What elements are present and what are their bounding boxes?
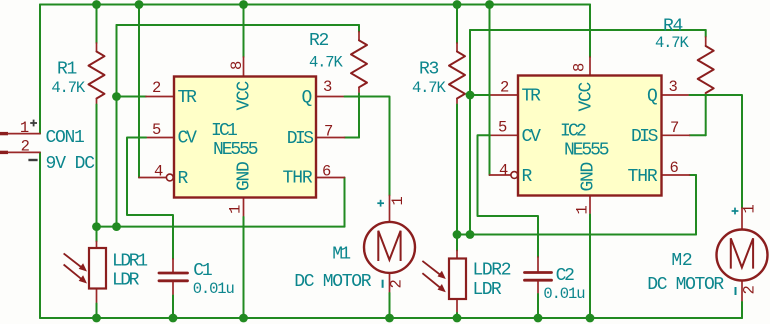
svg-text:2: 2 bbox=[387, 279, 405, 288]
pin 6 THR lead IC2 bbox=[662, 174, 690, 176]
junction dot TR node IC2 bbox=[466, 91, 475, 100]
IC1 NE555 body bbox=[174, 77, 316, 198]
svg-text:LDR: LDR bbox=[473, 280, 502, 300]
pin 8 VCC lead IC2 bbox=[589, 57, 591, 76]
IC2 NE555 body bbox=[518, 76, 662, 196]
wire: GND pin to bottom rail bbox=[243, 217, 245, 318]
resistor R4 bbox=[705, 30, 707, 37]
pin 1 GND lead IC1 bbox=[243, 198, 245, 218]
junction dots top rail bbox=[92, 0, 594, 322]
svg-text:4.7K: 4.7K bbox=[412, 79, 446, 97]
LDR2 top lead wires bbox=[456, 235, 458, 251]
svg-text:1: 1 bbox=[227, 205, 245, 214]
wire: VCC pin8 IC2 to top rail bbox=[589, 5, 591, 58]
svg-text:M1: M1 bbox=[332, 245, 350, 265]
svg-text:6: 6 bbox=[322, 162, 331, 180]
junction dots sense node 2 bbox=[453, 230, 462, 239]
wire: R2 bottom to DIS bbox=[358, 94, 360, 138]
svg-text:1: 1 bbox=[573, 205, 591, 214]
LDR1 top lead wires bbox=[96, 227, 98, 242]
LDR1 bottom lead wires bbox=[96, 289, 98, 304]
wire: line2 TR node to R2 top bbox=[117, 24, 360, 26]
pin 5 CV lead IC1 bbox=[146, 137, 174, 139]
svg-text:7: 7 bbox=[670, 119, 679, 137]
wire: THR2 stub bbox=[690, 174, 697, 176]
connector CON1 pin 2 lead bbox=[8, 151, 40, 153]
wire: DIS to R2 bbox=[345, 137, 360, 139]
pin 7 DIS lead IC2 bbox=[662, 134, 690, 136]
LDR1 body bbox=[89, 248, 106, 289]
svg-text:Q: Q bbox=[302, 88, 312, 108]
motor M1 top lead bbox=[389, 196, 391, 223]
wire: left leg CON1 pin2 to bottom rail bbox=[39, 152, 41, 318]
pin 1 GND lead IC2 bbox=[589, 196, 591, 215]
pin 4 R lead IC2 bbox=[490, 174, 511, 176]
motor M2 bottom lead bbox=[741, 281, 743, 303]
wire: TR2 vertical bbox=[469, 30, 471, 235]
pin 4 R lead IC1 bbox=[139, 177, 166, 179]
wire: sense node horizontal to THR loop bbox=[97, 226, 345, 228]
wire: reset pin4 vertical to VCC rail bbox=[138, 5, 140, 178]
wire: R4 bottom to DIS2 bbox=[705, 96, 707, 135]
junction dots bottom rail bbox=[92, 314, 101, 323]
svg-text:TR: TR bbox=[522, 87, 542, 107]
wire: Q output to motor M1 bbox=[345, 97, 390, 196]
svg-text:3: 3 bbox=[323, 78, 332, 96]
svg-text:CON1: CON1 bbox=[46, 128, 85, 148]
motor M1 bottom lead bbox=[389, 273, 391, 293]
LDR2 light arrows bbox=[422, 261, 445, 292]
wire: reset pin4 vertical IC2 to VCC rail bbox=[489, 5, 491, 176]
svg-text:Q: Q bbox=[647, 87, 657, 107]
svg-text:3: 3 bbox=[669, 78, 678, 96]
motor M2 M glyph bbox=[731, 238, 753, 268]
wire: R3 bottom to LDR2 node bbox=[456, 105, 458, 235]
wire: VCC pin8 to top rail bbox=[243, 5, 245, 58]
wire: TR2 node to pin 2 bbox=[470, 94, 490, 96]
capacitor C2 bbox=[537, 257, 539, 271]
svg-text:IC2: IC2 bbox=[560, 122, 586, 142]
wire: CV to C1 loop bbox=[127, 138, 173, 260]
resistor R2 bbox=[358, 25, 360, 32]
junction dots sense node 1 bbox=[92, 222, 101, 231]
svg-text:IC1: IC1 bbox=[211, 121, 237, 141]
svg-text:NE555: NE555 bbox=[213, 140, 258, 160]
wire: THR2 loop vertical bbox=[695, 175, 697, 235]
wire: left leg CON1 pin1 to top rail bbox=[39, 5, 41, 134]
svg-text:4: 4 bbox=[154, 163, 163, 181]
svg-text:DIS: DIS bbox=[287, 129, 314, 149]
junction dot TR node IC1 bbox=[112, 92, 121, 101]
svg-text:LDR: LDR bbox=[112, 270, 140, 290]
wire: DIS2 to R4 bbox=[690, 134, 706, 136]
svg-text:4.7K: 4.7K bbox=[51, 79, 85, 97]
wire: CV2 to C2 loop bbox=[478, 135, 539, 257]
motor M2 minus mark rotated bbox=[735, 287, 737, 295]
svg-text:8: 8 bbox=[571, 63, 589, 72]
LDR2 body bbox=[449, 259, 466, 300]
wire: GND2 pin to bottom rail bbox=[589, 215, 591, 319]
svg-text:4.7K: 4.7K bbox=[655, 34, 689, 52]
connector CON1 pin 2 stub bbox=[0, 151, 8, 154]
pin 5 CV lead IC2 bbox=[490, 134, 518, 136]
pin 7 DIS lead IC1 bbox=[316, 137, 345, 139]
svg-text:TR: TR bbox=[178, 88, 198, 108]
motor M2 top lead bbox=[741, 208, 743, 230]
svg-text:GND: GND bbox=[235, 162, 255, 191]
wire: C1 to ground rail bbox=[172, 296, 174, 319]
svg-text:9V DC: 9V DC bbox=[46, 154, 96, 174]
svg-text:4.7K: 4.7K bbox=[309, 54, 343, 72]
motor M1 plus mark bbox=[377, 200, 384, 207]
resistor R1 bbox=[96, 5, 98, 44]
svg-text:VCC: VCC bbox=[577, 81, 597, 111]
svg-text:THR: THR bbox=[283, 169, 313, 189]
polarity plus CON1 bbox=[30, 120, 37, 127]
svg-text:0.01u: 0.01u bbox=[193, 280, 234, 298]
svg-text:2: 2 bbox=[21, 138, 30, 156]
svg-text:THR: THR bbox=[628, 167, 658, 187]
pin 2 TR lead IC2 bbox=[490, 94, 518, 96]
pin 2 TR lead IC1 bbox=[146, 96, 174, 98]
pin 3 Q lead IC2 bbox=[662, 94, 690, 96]
svg-text:CV: CV bbox=[178, 129, 198, 149]
wire: TR node to pin 2 bbox=[117, 96, 147, 98]
LDR1 light arrows bbox=[64, 253, 87, 283]
motor M2 plus mark bbox=[732, 208, 739, 215]
svg-text:8: 8 bbox=[228, 61, 246, 70]
motor M1 circle bbox=[364, 222, 415, 273]
svg-text:C2: C2 bbox=[556, 266, 575, 286]
svg-text:5: 5 bbox=[152, 121, 161, 139]
svg-text:5: 5 bbox=[498, 119, 507, 137]
svg-text:0.01u: 0.01u bbox=[543, 285, 584, 303]
svg-text:M2: M2 bbox=[671, 251, 692, 271]
svg-text:2: 2 bbox=[152, 79, 161, 97]
wire: sense node 2 horizontal to THR loop bbox=[457, 234, 696, 236]
svg-text:1: 1 bbox=[389, 196, 407, 205]
svg-text:R2: R2 bbox=[309, 31, 329, 51]
motor M1 minus mark rotated bbox=[382, 280, 384, 288]
svg-text:1: 1 bbox=[741, 204, 759, 213]
wire: TR vertical bbox=[116, 25, 118, 227]
svg-text:2: 2 bbox=[500, 79, 509, 97]
wire: top VCC rail bbox=[40, 4, 590, 6]
svg-text:7: 7 bbox=[324, 122, 333, 140]
svg-text:R3: R3 bbox=[419, 60, 439, 80]
polarity minus CON1 bbox=[28, 159, 37, 161]
svg-text:NE555: NE555 bbox=[564, 141, 609, 161]
connector CON1 pin 1 stub bbox=[0, 132, 8, 135]
wire: M1 to ground rail bbox=[389, 293, 391, 318]
wire: M2 to ground rail bbox=[741, 302, 743, 318]
wire: C2 to ground rail bbox=[537, 294, 539, 318]
svg-text:6: 6 bbox=[670, 159, 679, 177]
wire: R1 bottom to LDR1 node bbox=[96, 105, 98, 227]
svg-text:DIS: DIS bbox=[631, 127, 658, 147]
connector CON1 pin 1 lead bbox=[8, 133, 40, 135]
pin 8 VCC lead IC1 bbox=[243, 57, 245, 77]
pin 6 THR lead IC1 bbox=[316, 177, 345, 179]
svg-text:DC MOTOR: DC MOTOR bbox=[294, 272, 372, 292]
wire: line2b TR2 node to R4 top bbox=[470, 29, 706, 31]
motor M1 M glyph bbox=[378, 231, 400, 261]
wire: THR loop vertical bbox=[344, 178, 346, 227]
svg-text:VCC: VCC bbox=[235, 80, 255, 110]
svg-text:GND: GND bbox=[579, 162, 599, 191]
wire: bottom GND rail bbox=[40, 317, 742, 319]
resistor R3 bbox=[456, 5, 458, 44]
svg-text:CV: CV bbox=[522, 127, 542, 147]
pin 3 Q lead IC1 bbox=[316, 96, 345, 98]
svg-text:1: 1 bbox=[20, 119, 29, 137]
svg-text:LDR2: LDR2 bbox=[473, 261, 511, 281]
svg-text:R1: R1 bbox=[57, 60, 77, 80]
motor M2 circle bbox=[717, 230, 768, 281]
wire: Q2 output to motor M2 bbox=[690, 95, 743, 208]
LDR2 bottom lead wires bbox=[456, 299, 458, 313]
svg-text:DC MOTOR: DC MOTOR bbox=[647, 275, 724, 295]
svg-text:4: 4 bbox=[499, 162, 508, 180]
svg-text:C1: C1 bbox=[193, 261, 212, 281]
svg-text:LDR1: LDR1 bbox=[112, 252, 147, 272]
capacitor C1 bbox=[172, 259, 174, 272]
svg-text:2: 2 bbox=[740, 285, 758, 294]
